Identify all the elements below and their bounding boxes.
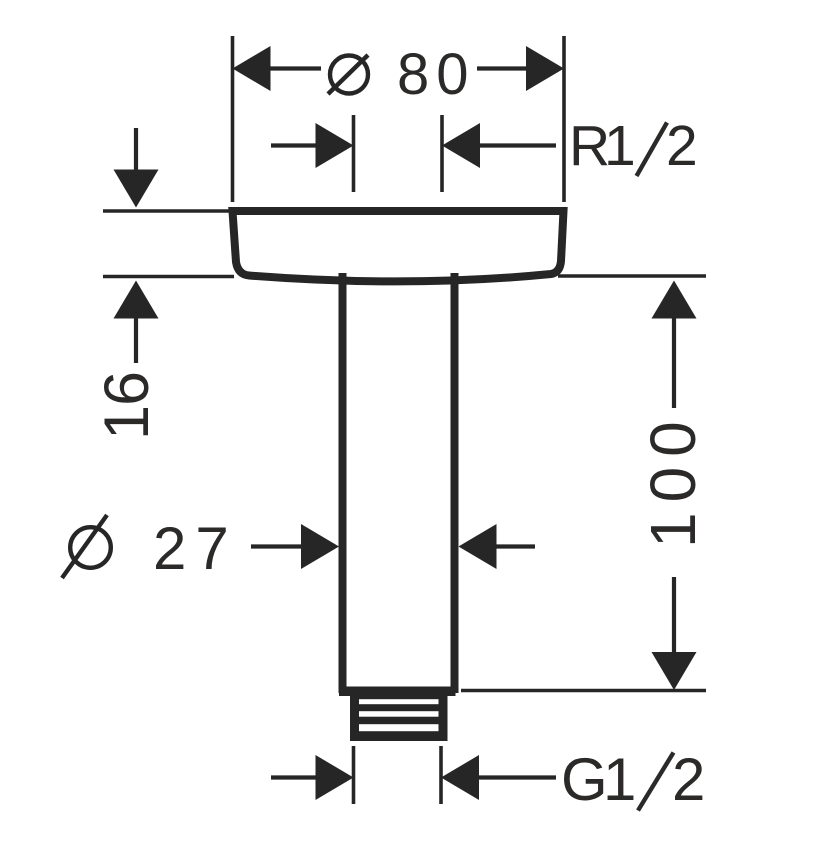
dim 100 up arrow	[652, 281, 697, 319]
pipe end reference line right	[461, 689, 706, 693]
arrowhead G1/2 left pointing right	[316, 755, 354, 800]
arrowhead R1/2 left pointing right	[316, 123, 354, 168]
ceiling line right	[558, 274, 706, 278]
arrowhead G1/2 right pointing left	[441, 755, 479, 800]
svg-text:2: 2	[672, 746, 705, 813]
svg-text:80: 80	[397, 42, 476, 107]
pipe end transition bar	[339, 687, 456, 697]
dim G1/2 right stem	[478, 775, 556, 779]
extension line left of Ø80	[231, 36, 235, 202]
extension line left of G1/2	[352, 746, 356, 804]
dim 27 left stem	[251, 544, 303, 548]
threaded tip block	[350, 695, 448, 741]
dim 100 down arrow stem	[672, 577, 676, 654]
R1/2 left arrow stem	[271, 143, 317, 147]
arrowhead Ø80 left	[233, 46, 271, 91]
svg-text:27: 27	[153, 515, 238, 582]
extension line left of R1/2	[352, 115, 356, 192]
dim 16 up arrow stem	[134, 317, 138, 363]
arrowhead Ø80 right	[526, 46, 564, 91]
pipe right wall	[451, 273, 459, 693]
ceiling line top left	[103, 209, 229, 213]
pipe left wall	[339, 273, 347, 693]
extension line right of R1/2	[440, 115, 444, 192]
svg-text:1: 1	[603, 746, 636, 813]
arrowhead 27 right pointing left	[459, 524, 497, 569]
dim 100 up arrow stem	[672, 317, 676, 408]
G1/2 slash	[638, 753, 674, 811]
svg-text:1: 1	[604, 114, 636, 178]
arrowhead 100 down	[652, 652, 697, 690]
dimension line Ø80 left segment	[270, 66, 321, 70]
thread white groove 1	[359, 699, 439, 704]
diameter symbol for 80	[328, 55, 368, 94]
arrowhead 27 left pointing right	[301, 524, 339, 569]
arrowhead 16 up	[114, 281, 159, 319]
dim 27 right stem	[495, 544, 535, 548]
dim 16 down arrow stem	[134, 128, 138, 172]
dim Ø27 symbol	[62, 515, 111, 578]
R1/2 right arrow stem	[479, 143, 556, 147]
svg-text:100: 100	[637, 411, 709, 548]
thread white groove 3	[359, 724, 439, 731]
R1/2 slash	[637, 123, 668, 177]
svg-text:2: 2	[666, 114, 698, 178]
dim G1/2 left stem	[271, 775, 317, 779]
svg-text:G: G	[561, 746, 608, 813]
dimension line Ø80 right segment	[477, 66, 527, 70]
thread white groove 2	[359, 711, 439, 717]
arrowhead 16 down	[114, 170, 159, 208]
ceiling line bottom left	[103, 275, 234, 279]
extension line right of Ø80	[562, 36, 566, 202]
arrowhead R1/2 right pointing left	[442, 123, 480, 168]
svg-text:16: 16	[92, 372, 162, 440]
flange body outline	[233, 211, 564, 281]
extension line right of G1/2	[439, 746, 443, 804]
